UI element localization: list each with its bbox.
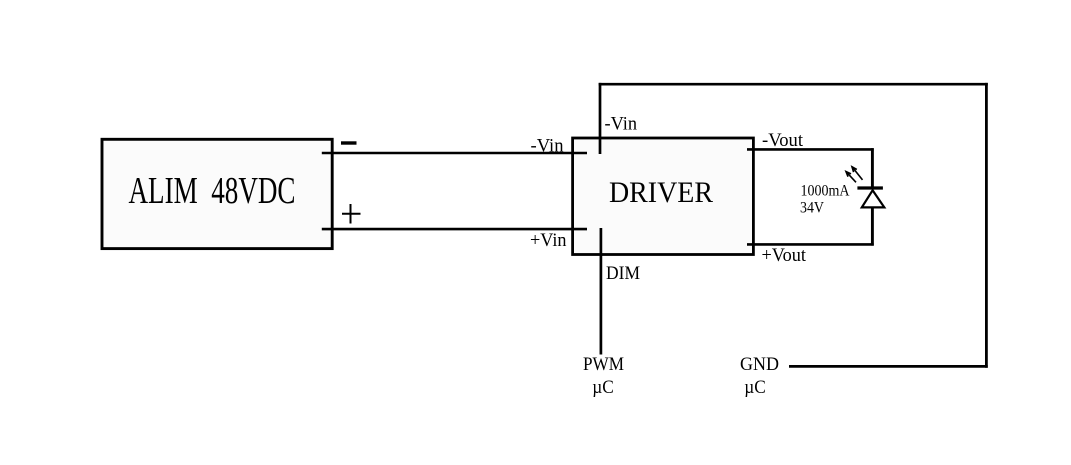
svg-text:µC: µC (592, 377, 614, 398)
wire -Vin (ALIM to DRIVER) (322, 152, 587, 155)
svg-text:+Vin: +Vin (530, 230, 567, 251)
wire right vertical (return to GND) (985, 83, 988, 368)
LED D1 triangle (862, 190, 885, 207)
svg-text:-Vin: -Vin (531, 136, 564, 157)
svg-text:+Vout: +Vout (762, 245, 807, 266)
power supply box ALIM 48VDC (102, 139, 332, 248)
svg-text:-Vin: -Vin (605, 114, 638, 135)
wire top horizontal (return to GND) (599, 83, 988, 86)
pin -Vin top (vertical stub into top wire) (599, 83, 602, 154)
wire +Vin (ALIM to DRIVER) (322, 228, 587, 231)
LED D1 cathode bar (857, 186, 883, 189)
svg-text:1000mA: 1000mA (801, 183, 850, 200)
wire LED anode (vertical, top) (871, 148, 874, 187)
driver box U1 (573, 138, 754, 255)
svg-text:DRIVER: DRIVER (609, 176, 713, 209)
svg-text:µC: µC (744, 377, 766, 398)
svg-text:DIM: DIM (606, 263, 640, 284)
svg-text:GND: GND (740, 354, 779, 375)
wire GND horizontal (789, 365, 988, 368)
wire LED cathode (vertical, bottom) (871, 207, 874, 246)
pin DIM (vertical wire down to PWM) (600, 228, 603, 355)
wire +Vout (DRIVER to LED) (747, 243, 874, 246)
LED light arrow 2 (852, 167, 863, 180)
wire -Vout (DRIVER to LED) (747, 148, 874, 151)
svg-text:PWM: PWM (583, 354, 624, 375)
svg-text:ALIM 48VDC: ALIM 48VDC (129, 170, 296, 212)
LED light arrow 1 (846, 172, 856, 183)
polarity plus sign (342, 204, 361, 224)
polarity minus sign (341, 141, 357, 144)
svg-text:-Vout: -Vout (762, 130, 804, 151)
svg-text:34V: 34V (800, 199, 824, 216)
